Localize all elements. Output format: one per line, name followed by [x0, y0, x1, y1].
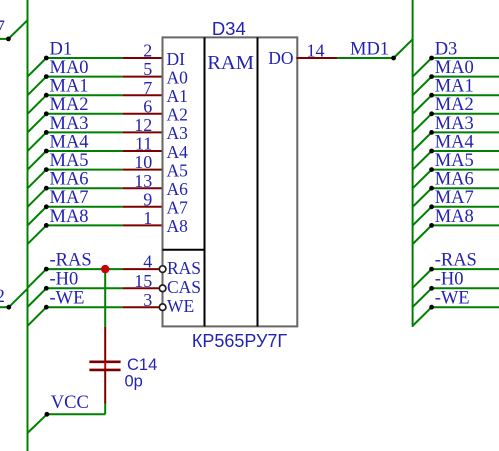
wire MA3 (right) — [413, 130, 499, 151]
svg-text:CAS: CAS — [167, 277, 201, 297]
capacitor C14 — [89, 362, 120, 404]
wire MA3 (left) — [28, 130, 164, 151]
svg-text:MA8: MA8 — [50, 207, 89, 227]
wire MA0 (right) — [413, 74, 499, 95]
svg-text:A4: A4 — [167, 142, 189, 162]
svg-text:DI: DI — [167, 49, 186, 69]
inversion bubble CAS — [159, 285, 166, 292]
wire MD1 (DO output) — [296, 39, 412, 60]
svg-text:12: 12 — [134, 115, 152, 135]
wire MA5 (right) — [413, 167, 499, 188]
wire MA4 (left) — [28, 149, 164, 170]
svg-text:MA1: MA1 — [50, 77, 89, 97]
svg-text:WE: WE — [167, 296, 194, 316]
svg-text:MA2: MA2 — [435, 95, 474, 115]
wire MA2 (left) — [28, 111, 164, 132]
wire -H0 (left) — [28, 286, 159, 307]
svg-text:5: 5 — [143, 59, 152, 79]
wire net 2 (left entry) — [0, 289, 28, 310]
svg-text:A7: A7 — [167, 198, 189, 218]
svg-text:A0: A0 — [167, 67, 189, 87]
svg-text:MA3: MA3 — [50, 114, 89, 134]
wire MA7 (right) — [413, 204, 499, 225]
svg-text:A6: A6 — [167, 179, 189, 199]
svg-text:MA0: MA0 — [435, 58, 474, 78]
wire MA1 (right) — [413, 93, 499, 114]
svg-text:MA4: MA4 — [50, 132, 89, 152]
svg-text:9: 9 — [143, 189, 152, 209]
junction -RAS/C14 (red) — [101, 265, 109, 273]
wire MA5 (left) — [28, 167, 164, 188]
svg-text:-WE: -WE — [50, 289, 85, 309]
svg-text:7: 7 — [0, 18, 5, 38]
svg-text:RAM: RAM — [207, 52, 254, 74]
inversion bubble RAS — [159, 266, 166, 273]
wire D1 (left) — [28, 56, 164, 77]
svg-text:A1: A1 — [167, 86, 188, 106]
wire -WE (right) — [413, 305, 499, 326]
svg-text:MA1: MA1 — [435, 77, 474, 97]
svg-text:MD1: MD1 — [350, 39, 389, 59]
svg-text:MA6: MA6 — [50, 170, 89, 190]
svg-text:-RAS: -RAS — [50, 251, 92, 271]
wire MA7 (left) — [28, 204, 164, 225]
wire VCC — [28, 403, 106, 433]
wire MA2 (right) — [413, 111, 499, 132]
wire MA0 (left) — [28, 74, 164, 95]
svg-text:-H0: -H0 — [435, 270, 464, 290]
svg-text:КР565РУ7Г: КР565РУ7Г — [192, 331, 288, 351]
svg-text:A3: A3 — [167, 123, 189, 143]
wire D3 (right) — [413, 56, 499, 77]
svg-text:RAS: RAS — [167, 258, 201, 278]
svg-text:MA8: MA8 — [435, 207, 474, 227]
wire MA8 (left) — [28, 223, 164, 244]
svg-text:MA6: MA6 — [435, 170, 474, 190]
svg-text:0p: 0p — [125, 373, 143, 391]
svg-text:A5: A5 — [167, 160, 189, 180]
svg-text:4: 4 — [143, 252, 152, 272]
wire net 7 (top-left entry) — [0, 20, 28, 41]
svg-text:MA4: MA4 — [435, 132, 474, 152]
wire capacitor top lead (from -RAS junction) — [104, 269, 106, 361]
svg-text:13: 13 — [134, 171, 152, 191]
wire right bus (vertical) — [412, 0, 414, 327]
svg-text:6: 6 — [143, 96, 152, 116]
wire -RAS (right) — [413, 267, 499, 288]
svg-text:-RAS: -RAS — [435, 251, 477, 271]
svg-text:15: 15 — [134, 271, 152, 291]
wire -WE (left) — [28, 305, 159, 326]
RAM chip D34 (КР565РУ7Г) body — [163, 37, 298, 326]
svg-text:2: 2 — [143, 41, 152, 61]
svg-text:D34: D34 — [212, 18, 246, 39]
svg-text:C14: C14 — [127, 356, 157, 374]
svg-text:MA7: MA7 — [50, 188, 89, 208]
wire -RAS (left) — [28, 267, 159, 288]
svg-text:VCC: VCC — [51, 393, 89, 413]
svg-text:2: 2 — [0, 287, 5, 307]
svg-text:MA0: MA0 — [50, 58, 89, 78]
wire MA6 (right) — [413, 186, 499, 207]
svg-text:3: 3 — [143, 290, 152, 310]
svg-text:14: 14 — [307, 41, 325, 61]
wire -H0 (right) — [413, 286, 499, 307]
chip divider 1 — [204, 37, 206, 326]
svg-text:D3: D3 — [435, 39, 458, 59]
svg-text:11: 11 — [135, 134, 152, 154]
wire MA4 (right) — [413, 149, 499, 170]
svg-text:-WE: -WE — [435, 289, 470, 309]
svg-text:A8: A8 — [167, 216, 189, 236]
wire left bus (vertical) — [27, 0, 29, 451]
svg-text:MA5: MA5 — [50, 151, 89, 171]
svg-text:MA3: MA3 — [435, 114, 474, 134]
svg-text:-H0: -H0 — [50, 270, 79, 290]
svg-text:DO: DO — [268, 48, 293, 68]
svg-text:1: 1 — [143, 208, 152, 228]
svg-text:D1: D1 — [50, 39, 73, 59]
svg-text:10: 10 — [134, 152, 152, 172]
chip divider 2 — [257, 37, 259, 326]
chip left-column divider — [163, 249, 205, 251]
wire MA6 (left) — [28, 186, 164, 207]
svg-text:MA5: MA5 — [435, 151, 474, 171]
wire MA1 (left) — [28, 93, 164, 114]
svg-text:MA7: MA7 — [435, 188, 474, 208]
inversion bubble WE — [159, 304, 166, 311]
wire MA8 (right) — [413, 223, 499, 244]
svg-text:A2: A2 — [167, 105, 188, 125]
svg-text:MA2: MA2 — [50, 95, 89, 115]
svg-text:7: 7 — [143, 78, 152, 98]
